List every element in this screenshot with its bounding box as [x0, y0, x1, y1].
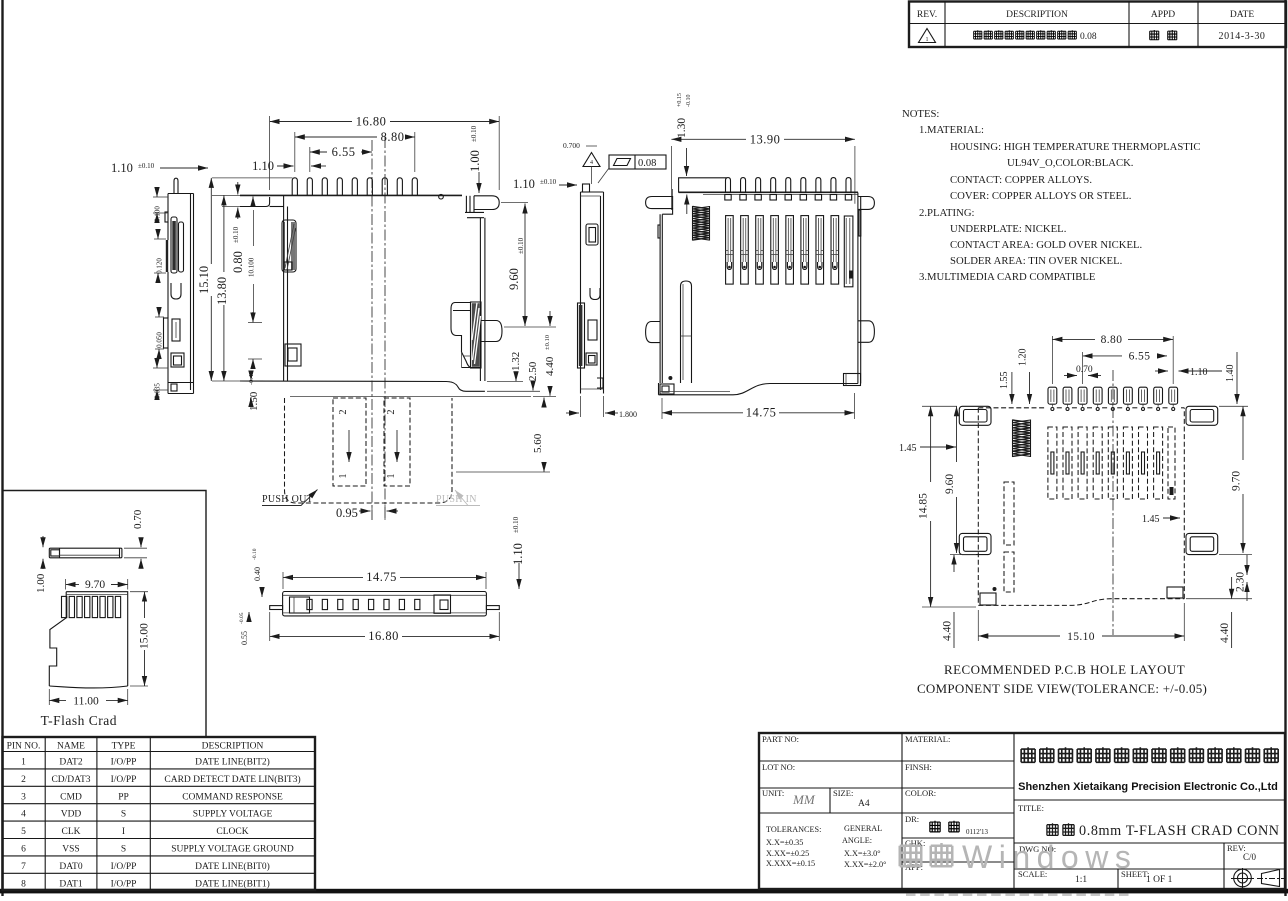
svg-text:DAT2: DAT2	[59, 758, 82, 768]
svg-text:0.08: 0.08	[638, 158, 656, 169]
svg-text:PUSH IN: PUSH IN	[436, 494, 477, 505]
svg-text:4.40: 4.40	[942, 621, 954, 641]
svg-text:9.60: 9.60	[507, 268, 521, 290]
svg-text:1.55: 1.55	[999, 372, 1010, 390]
svg-text:SUPPLY VOLTAGE GROUND: SUPPLY VOLTAGE GROUND	[171, 845, 294, 855]
svg-text:DATE LINE(BIT1): DATE LINE(BIT1)	[195, 878, 270, 889]
svg-text:6.55: 6.55	[332, 145, 356, 159]
svg-text:1.10: 1.10	[513, 177, 535, 191]
svg-text:1: 1	[926, 37, 929, 43]
svg-text:NOTES:: NOTES:	[902, 108, 939, 120]
svg-text:±0.10: ±0.10	[544, 335, 551, 350]
svg-text:0.80: 0.80	[231, 251, 245, 273]
svg-text:2.30: 2.30	[1235, 572, 1247, 592]
svg-text:COVER: COPPER ALLOYS OR STEEL.: COVER: COPPER ALLOYS OR STEEL.	[950, 190, 1131, 202]
svg-text:Windows: Windows	[962, 839, 1137, 875]
svg-text:0.55: 0.55	[240, 631, 249, 645]
svg-text:1: 1	[386, 474, 397, 479]
svg-text:4: 4	[21, 810, 26, 820]
svg-text:LOT NO:: LOT NO:	[762, 762, 795, 772]
svg-text:16.80: 16.80	[368, 629, 399, 643]
svg-text:-0.40: -0.40	[248, 371, 255, 385]
svg-text:9.70: 9.70	[1231, 471, 1243, 491]
svg-text:1.10: 1.10	[1190, 367, 1208, 378]
svg-text:CLK: CLK	[62, 827, 81, 837]
svg-text:1.45: 1.45	[1142, 514, 1160, 525]
svg-text:1:1: 1:1	[1075, 875, 1087, 885]
svg-text:1.10: 1.10	[511, 543, 525, 565]
svg-text:15.00: 15.00	[139, 623, 151, 649]
svg-text:TYPE: TYPE	[112, 742, 136, 752]
svg-text:8: 8	[21, 879, 26, 889]
svg-text:1.00: 1.00	[468, 150, 482, 172]
svg-text:0.08: 0.08	[1080, 32, 1097, 42]
svg-text:+0.15: +0.15	[677, 93, 683, 107]
svg-text:X.X=±3.0°: X.X=±3.0°	[844, 849, 881, 858]
svg-text:1.20: 1.20	[1018, 349, 1029, 367]
svg-text:MM: MM	[792, 792, 816, 807]
svg-text:SIZE:: SIZE:	[833, 788, 853, 798]
svg-text:3: 3	[21, 792, 26, 802]
svg-text:I: I	[122, 827, 125, 837]
svg-text:CLOCK: CLOCK	[216, 827, 248, 837]
svg-text:REV.: REV.	[917, 10, 937, 20]
svg-text:COLOR:: COLOR:	[905, 788, 936, 798]
svg-text:VDD: VDD	[61, 810, 82, 820]
svg-text:3.MULTIMEDIA CARD COMPATIBLE: 3.MULTIMEDIA CARD COMPATIBLE	[919, 271, 1095, 283]
svg-text:Shenzhen Xietaikang Precision: Shenzhen Xietaikang Precision Electronic…	[1018, 781, 1278, 793]
svg-text:±0.10: ±0.10	[540, 178, 557, 186]
svg-text:MATERIAL:: MATERIAL:	[905, 734, 950, 744]
svg-text:DATE LINE(BIT0): DATE LINE(BIT0)	[195, 861, 270, 872]
svg-text:COMPONENT SIDE VIEW(TOLERANCE:: COMPONENT SIDE VIEW(TOLERANCE: +/-0.05)	[917, 681, 1207, 696]
svg-text:A4: A4	[858, 799, 870, 809]
svg-text:1.10: 1.10	[252, 159, 274, 173]
svg-text:13.80: 13.80	[215, 277, 229, 305]
svg-text:I/O/PP: I/O/PP	[111, 758, 137, 768]
svg-text:DR:: DR:	[905, 814, 919, 824]
svg-text:1.MATERIAL:: 1.MATERIAL:	[919, 124, 984, 136]
svg-text:1.50: 1.50	[248, 391, 260, 411]
svg-text:2.50: 2.50	[527, 361, 539, 381]
svg-text:SOLDER AREA: TIN OVER NICKEL.: SOLDER AREA: TIN OVER NICKEL.	[950, 255, 1122, 267]
svg-text:1.45: 1.45	[899, 443, 917, 454]
svg-text:0.100: 0.100	[154, 206, 162, 222]
svg-text:VSS: VSS	[62, 845, 79, 855]
svg-text:I/O/PP: I/O/PP	[111, 862, 137, 872]
svg-text:6: 6	[21, 845, 26, 855]
svg-text:PUSH OUT: PUSH OUT	[262, 494, 313, 505]
svg-text:S: S	[121, 845, 126, 855]
svg-text:T-Flash Crad: T-Flash Crad	[41, 713, 117, 728]
svg-text:DATE: DATE	[1230, 10, 1254, 20]
svg-text:0.8mm T-FLASH CRAD CONN: 0.8mm T-FLASH CRAD CONN	[1079, 823, 1280, 839]
svg-text:2: 2	[21, 775, 26, 785]
svg-text:2: 2	[386, 410, 397, 415]
svg-text:±0.10: ±0.10	[232, 226, 240, 243]
svg-text:X.XX=±2.0°: X.XX=±2.0°	[844, 860, 886, 869]
svg-text:±0.10: ±0.10	[517, 237, 525, 254]
svg-text:APPD: APPD	[1151, 10, 1175, 20]
svg-text:PART NO:: PART NO:	[762, 734, 799, 744]
svg-text:SUPPLY VOLTAGE: SUPPLY VOLTAGE	[193, 810, 273, 820]
svg-text:DESCRIPTION: DESCRIPTION	[1006, 10, 1068, 20]
svg-text:4: 4	[590, 160, 593, 166]
svg-text:UL94V_O,COLOR:BLACK.: UL94V_O,COLOR:BLACK.	[1007, 157, 1133, 169]
svg-text:2: 2	[338, 410, 349, 415]
svg-text:1.30: 1.30	[676, 118, 688, 138]
svg-text:9.70: 9.70	[85, 579, 105, 591]
svg-text:2014-3-30: 2014-3-30	[1218, 31, 1265, 42]
svg-text:CD/DAT3: CD/DAT3	[51, 775, 90, 785]
svg-text:±0.10: ±0.10	[470, 125, 478, 142]
svg-text:CONTACT: COPPER ALLOYS.: CONTACT: COPPER ALLOYS.	[950, 174, 1092, 186]
svg-text:5: 5	[21, 827, 26, 837]
svg-text:2.PLATING:: 2.PLATING:	[919, 207, 975, 219]
svg-text:CARD DETECT DATE LIN(BIT3): CARD DETECT DATE LIN(BIT3)	[164, 774, 300, 785]
svg-text:X.XXX=±0.15: X.XXX=±0.15	[766, 859, 815, 868]
svg-text:1: 1	[338, 474, 349, 479]
svg-text:RECOMMENDED P.C.B HOLE LAYOUT: RECOMMENDED P.C.B HOLE LAYOUT	[944, 662, 1185, 677]
svg-text:1.00: 1.00	[35, 573, 47, 593]
svg-text:0.40: 0.40	[253, 567, 262, 581]
svg-text:PIN NO.: PIN NO.	[7, 742, 41, 752]
svg-text:14.85: 14.85	[918, 493, 930, 519]
svg-text:9.60: 9.60	[944, 474, 956, 494]
svg-text:0.70: 0.70	[1076, 365, 1093, 375]
svg-text:S: S	[121, 810, 126, 820]
svg-text:-0.05: -0.05	[239, 612, 245, 624]
svg-text:TOLERANCES:: TOLERANCES:	[766, 825, 821, 834]
svg-text:7: 7	[21, 862, 26, 872]
svg-text:16.80: 16.80	[356, 115, 387, 129]
svg-text:5.60: 5.60	[532, 433, 544, 453]
svg-text:0.95: 0.95	[336, 506, 358, 520]
svg-text:1: 1	[21, 758, 26, 768]
svg-text:I/O/PP: I/O/PP	[111, 879, 137, 889]
svg-text:FINSH:: FINSH:	[905, 762, 932, 772]
svg-text:0.050: 0.050	[156, 332, 164, 348]
svg-text:13.90: 13.90	[750, 133, 781, 147]
svg-text:±0.10: ±0.10	[512, 516, 520, 533]
svg-text:CMD: CMD	[60, 792, 82, 802]
svg-text:8.80: 8.80	[381, 130, 405, 144]
svg-text:15.10: 15.10	[197, 266, 211, 294]
svg-text:X.X=±0.35: X.X=±0.35	[766, 838, 803, 847]
svg-text:6.55: 6.55	[1129, 351, 1151, 363]
svg-text:DATE LINE(BIT2): DATE LINE(BIT2)	[195, 757, 270, 768]
svg-text:UNDERPLATE: NICKEL.: UNDERPLATE: NICKEL.	[950, 223, 1066, 235]
svg-text:0.700: 0.700	[563, 141, 580, 150]
svg-text:4.40: 4.40	[544, 356, 556, 376]
svg-text:PP: PP	[118, 792, 129, 802]
svg-text:14.75: 14.75	[746, 406, 777, 420]
svg-text:1 OF 1: 1 OF 1	[1146, 875, 1173, 885]
svg-text:±0.10: ±0.10	[138, 162, 155, 170]
svg-text:UNIT:: UNIT:	[762, 788, 784, 798]
svg-text:0.035: 0.035	[154, 383, 162, 399]
svg-text:ANGLE:: ANGLE:	[842, 836, 872, 845]
svg-text:0112'13: 0112'13	[966, 828, 989, 836]
svg-text:0.120: 0.120	[156, 258, 164, 274]
svg-text:-0.10: -0.10	[252, 548, 258, 560]
svg-text:CONTACT AREA: GOLD OVER NICKEL: CONTACT AREA: GOLD OVER NICKEL.	[950, 239, 1142, 251]
svg-text:1.32: 1.32	[510, 352, 522, 371]
svg-text:8.80: 8.80	[1101, 334, 1123, 346]
svg-text:I/O/PP: I/O/PP	[111, 775, 137, 785]
svg-text:1.40: 1.40	[1225, 365, 1236, 383]
svg-text:10.100: 10.100	[248, 257, 256, 277]
svg-text:DESCRIPTION: DESCRIPTION	[202, 742, 264, 752]
svg-text:15.10: 15.10	[1067, 631, 1095, 643]
svg-text:NAME: NAME	[57, 742, 85, 752]
svg-text:GENERAL: GENERAL	[844, 824, 882, 833]
svg-text:1.800: 1.800	[619, 410, 637, 419]
svg-text:C/0: C/0	[1243, 852, 1257, 862]
svg-text:1.10: 1.10	[111, 161, 133, 175]
svg-text:DAT1: DAT1	[59, 879, 82, 889]
svg-text:TITLE:: TITLE:	[1018, 803, 1044, 813]
svg-text:HOUSING: HIGH TEMPERATURE THER: HOUSING: HIGH TEMPERATURE THERMOPLASTIC	[950, 141, 1200, 153]
svg-text:4.40: 4.40	[1219, 623, 1231, 643]
svg-text:X.XX=±0.25: X.XX=±0.25	[766, 849, 809, 858]
svg-text:COMMAND RESPONSE: COMMAND RESPONSE	[182, 792, 283, 802]
svg-text:DAT0: DAT0	[59, 862, 82, 872]
svg-text:-0.10: -0.10	[686, 95, 692, 108]
svg-text:14.75: 14.75	[366, 570, 397, 584]
svg-text:11.00: 11.00	[73, 695, 99, 707]
svg-text:0.70: 0.70	[132, 509, 144, 529]
